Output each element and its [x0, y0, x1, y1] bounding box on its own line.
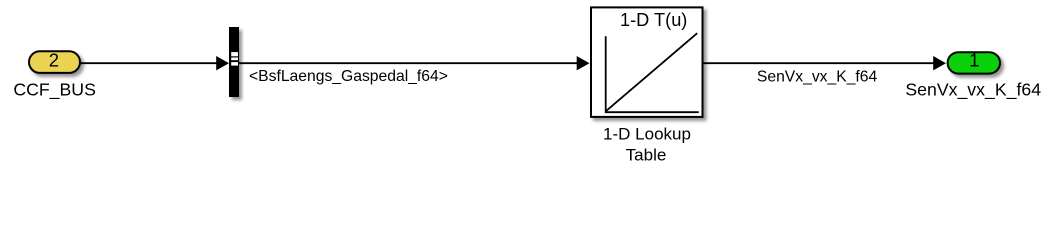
bus selector block (vertical bar) [229, 27, 239, 97]
inport block Inport2 (oval) [29, 49, 80, 73]
svg-text:<BsfLaengs_Gaspedal_f64>: <BsfLaengs_Gaspedal_f64> [249, 68, 448, 85]
svg-text:1-D T(u): 1-D T(u) [620, 10, 687, 30]
svg-text:2: 2 [49, 49, 59, 70]
arrowhead into Bus Selector [216, 56, 229, 70]
arrowhead into 1-D Lookup Table [577, 56, 590, 70]
svg-text:SenVx_vx_K_f64: SenVx_vx_K_f64 [757, 68, 878, 85]
svg-text:1: 1 [969, 50, 979, 71]
wire from 1-D Lookup Table to Outport1 [704, 62, 935, 64]
wire from Bus Selector to 1-D Lookup Table [239, 62, 578, 64]
svg-text:CCF_BUS: CCF_BUS [13, 79, 96, 100]
outport block Outport1 (oval) [948, 50, 1000, 74]
svg-text:SenVx_vx_K_f64: SenVx_vx_K_f64 [905, 80, 1041, 101]
wire from Inport2 to Bus Selector [81, 62, 217, 64]
1-D Lookup Table block [591, 7, 703, 117]
arrowhead into Outport1 [933, 56, 946, 70]
lookup table icon curve [606, 33, 697, 111]
svg-text:Table: Table [626, 146, 667, 165]
lookup table icon axes [606, 36, 699, 112]
svg-text:1-D Lookup: 1-D Lookup [603, 125, 691, 144]
